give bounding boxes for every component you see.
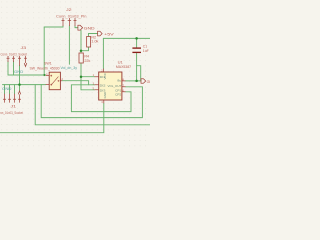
connector J2 pin 3 (74, 18, 77, 26)
wire rail S (0, 103, 104, 133)
wire drop from DI2 line (70, 85, 72, 112)
svg-text:VOL_OUT: VOL_OUT (108, 84, 122, 88)
wire divider node to R4 top (80, 51, 82, 53)
wire to U1 pin DI3 (81, 89, 95, 91)
wire R2 bottom to divider node (81, 47, 89, 51)
node top rail / C1 (135, 37, 138, 40)
wire to U1 pin DI2 (71, 84, 94, 86)
node divider R2/R4 (80, 49, 83, 52)
connector J1 pin 1 (3, 94, 6, 103)
svg-text:VCC: VCC (103, 72, 107, 79)
svg-text:GND: GND (14, 70, 24, 74)
wire J2 pin1 vertical to switch (43, 27, 45, 75)
svg-text:8c: 8c (117, 79, 121, 83)
wire J1 pin3 stub (14, 85, 16, 94)
J1 up arrow (18, 91, 21, 103)
wire J2 pin1 short stub (62, 26, 64, 27)
wire J3 pin3 stub (19, 66, 21, 85)
svg-text:J2: J2 (66, 7, 72, 12)
resistor R2 (87, 37, 91, 48)
wire jog near C1 (137, 66, 141, 81)
wire C1 bottom to GND node (136, 53, 138, 81)
svg-text:J3: J3 (21, 45, 27, 50)
global label GND at J2 pin3 (78, 25, 83, 30)
connector J3 pin 3 (18, 56, 21, 66)
wire top +5V rail (103, 37, 150, 39)
wire J2 pin3 hook to GND label (75, 26, 78, 28)
connector J1 pin 2 (8, 94, 11, 103)
svg-text:J1: J1 (11, 104, 17, 109)
wire U1 pin8 to GND label (126, 80, 141, 82)
wire U1 VCC top (102, 38, 104, 68)
junction dots (18, 37, 138, 86)
wire line A J3 pins to switch upper pin (8, 74, 46, 76)
resistor R4 (79, 53, 83, 63)
wire node to U1 pin DI1 (81, 76, 95, 78)
wire J1 pin1 stub (4, 85, 6, 94)
wire SW1 output (62, 81, 88, 85)
svg-text:CP2: CP2 (115, 93, 122, 97)
node GND / C1 bottom (135, 80, 138, 83)
connector J2 pin 2 (68, 18, 71, 26)
global label +5V (98, 31, 103, 36)
wire J1 pin2 stub (9, 85, 11, 94)
connector J3 pin 2 (12, 56, 15, 62)
svg-text:1.0k: 1.0k (91, 39, 98, 43)
svg-text:Conn_01x03_Pin: Conn_01x03_Pin (56, 14, 87, 18)
connector J1 pin 3 (13, 94, 16, 103)
node DI1 branch (80, 75, 83, 78)
wire rail R (35, 85, 150, 125)
svg-text:Conn_01x03_Socket: Conn_01x03_Socket (0, 111, 23, 115)
svg-text:SW1: SW1 (44, 60, 52, 65)
svg-text:DI3: DI3 (100, 88, 106, 92)
svg-text:U1: U1 (118, 59, 123, 64)
U1 pin stubs (95, 69, 126, 104)
node line A / switch (43, 74, 45, 76)
SW1 pin stubs (46, 75, 63, 84)
wire J2 pin2 vertical to label (68, 26, 70, 65)
op-amp U1 body (99, 72, 122, 100)
svg-text:MAX5387: MAX5387 (116, 65, 131, 69)
wire GND rail B (3, 84, 46, 86)
global label GND right (141, 79, 146, 84)
wire C1 top stub (136, 38, 138, 47)
svg-text:1uF: 1uF (143, 49, 150, 53)
svg-text:GND: GND (2, 87, 12, 91)
wire R4 bottom vertical (80, 63, 82, 90)
svg-text:GND: GND (147, 79, 150, 84)
svg-text:GND: GND (84, 25, 95, 30)
wire R2 top to +5V label (89, 34, 98, 37)
svg-text:Conn_01x03_Socket: Conn_01x03_Socket (1, 53, 28, 57)
wire rail B to J1 arrow (19, 85, 21, 91)
svg-text:C1: C1 (143, 44, 147, 48)
svg-text:+5V: +5V (104, 32, 114, 37)
svg-text:Vol_dn_3y: Vol_dn_3y (61, 65, 78, 70)
svg-text:GND: GND (103, 91, 107, 98)
connector J3 pin 1 (7, 56, 10, 62)
capacitor C1 (132, 48, 141, 52)
svg-text:DI2: DI2 (100, 83, 106, 87)
wire J3 pin1 stub (7, 62, 9, 76)
switch SW1 body (49, 72, 60, 90)
wire rail Q (41, 85, 142, 118)
wire J2 pin1 top horizontal (44, 26, 63, 28)
svg-text:SW_Wuerth_45030: SW_Wuerth_45030 (30, 66, 60, 70)
wire rail P (71, 92, 131, 112)
wire GND label to divider node (80, 30, 82, 50)
node rail B / J1 (18, 83, 21, 86)
switch SW1 lever (51, 75, 59, 85)
svg-text:22k: 22k (84, 59, 90, 63)
J3 down arrow (24, 56, 27, 67)
connector J2 pin 1 (62, 18, 65, 26)
wire J3 pin2 stub (13, 62, 15, 76)
